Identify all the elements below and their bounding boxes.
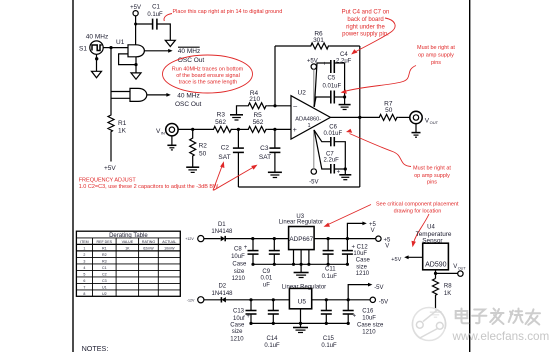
wire -12V to D2 [204, 299, 221, 301]
svg-text:R3: R3 [217, 112, 226, 119]
svg-text:OSC Out: OSC Out [175, 101, 202, 108]
+12V input terminal [185, 236, 204, 242]
node junction U4/R8 [434, 272, 437, 275]
resistor R7 50 [378, 100, 398, 120]
svg-text:210: 210 [249, 96, 260, 103]
svg-text:R1: R1 [118, 120, 127, 127]
svg-text:size: size [232, 329, 243, 335]
wire gate 2 output with arrow [147, 93, 171, 97]
watermark chinese glyphs (vector) [456, 309, 540, 325]
svg-text:size: size [356, 264, 367, 270]
svg-text:Linear Regulator: Linear Regulator [282, 284, 326, 290]
svg-text:R3: R3 [102, 259, 107, 263]
ground below C3 [268, 172, 282, 177]
svg-text:ADA4860-: ADA4860- [295, 117, 321, 123]
wire U4 bottom to node [435, 270, 437, 279]
svg-text:5: 5 [83, 272, 85, 276]
svg-text:1N4148: 1N4148 [211, 229, 233, 235]
ground below U3 [294, 264, 309, 277]
svg-text:OUT: OUT [430, 120, 439, 125]
svg-text:V: V [371, 228, 375, 234]
wire junction to C1 left plate [136, 23, 152, 25]
wire R4 left to ground [237, 106, 248, 115]
svg-text:U2: U2 [102, 292, 107, 296]
svg-text:R2: R2 [199, 143, 208, 150]
svg-text:AD590: AD590 [425, 261, 447, 268]
wire C3 bottom to ground [274, 152, 276, 172]
svg-text:Place this cap right at pin 14: Place this cap right at pin 14 to digita… [173, 9, 283, 15]
wire +12V to D1 [204, 238, 221, 240]
linear regulator U5 [282, 284, 326, 309]
svg-text:Run 40MHz traces on bottom: Run 40MHz traces on bottom [172, 66, 244, 72]
svg-text:+: + [244, 245, 248, 251]
wire positive ground rail [253, 263, 347, 265]
node B junction (R5/C3/+in) [273, 128, 276, 131]
svg-text:10uF: 10uF [362, 315, 376, 321]
wire C1 right plate to ground [157, 24, 170, 40]
svg-text:www.elecfans.com: www.elecfans.com [452, 330, 550, 343]
+5V terminal at op amp [307, 59, 318, 70]
svg-text:Put C4 and C7 on: Put C4 and C7 on [342, 10, 390, 16]
resistor R4 210 [247, 90, 267, 109]
svg-text:+: + [246, 314, 250, 320]
svg-text:0.01uF: 0.01uF [323, 83, 342, 89]
ground below R8 (partly hidden by watermark) [430, 312, 441, 317]
node junction C14 [272, 298, 275, 301]
svg-text:1K: 1K [444, 291, 451, 297]
svg-text:C3: C3 [260, 145, 269, 152]
svg-text:V: V [385, 243, 389, 249]
ground small below VIN [167, 136, 176, 150]
capacitor C15 0.1uF [321, 300, 337, 349]
svg-text:50: 50 [199, 151, 207, 158]
ground small below VOUT [412, 124, 421, 138]
svg-text:U5: U5 [298, 298, 307, 305]
capacitor C5 0.01uF [323, 75, 342, 103]
svg-text:Must be right at: Must be right at [413, 165, 451, 171]
wire C5 right to ground [334, 96, 344, 98]
node junction C13 [249, 298, 252, 301]
svg-text:40 MHz: 40 MHz [86, 33, 108, 40]
wire node down the left column [110, 48, 112, 114]
svg-text:10mW: 10mW [164, 246, 175, 250]
svg-text:U1: U1 [102, 285, 107, 289]
svg-text:0.1uF: 0.1uF [321, 343, 337, 349]
derating table [76, 231, 180, 296]
node junction R2 tap [191, 128, 194, 131]
feedback wire from U1 lower input to ground net [119, 54, 136, 65]
net label 40 MHz OSC Out (inverted) [178, 47, 205, 64]
wire R7 to VOUT connector [398, 116, 409, 118]
svg-text:562: 562 [253, 119, 264, 126]
node C junction (R4/R6/-in) [273, 104, 276, 107]
wire node to gate U1 input [111, 47, 128, 49]
red note: frequency adjust [79, 161, 258, 190]
svg-text:1210: 1210 [362, 329, 376, 335]
ground below R2 [186, 167, 199, 172]
wire down to ground [344, 169, 346, 174]
svg-text:Linear Regulator: Linear Regulator [279, 220, 323, 226]
wire C7 right to ground [334, 168, 345, 170]
wire to gate 2 input b [111, 97, 130, 99]
wire negative ground rail [251, 322, 348, 324]
svg-text:C16: C16 [362, 308, 374, 314]
U3 ground pins [294, 250, 309, 265]
svg-text:1210: 1210 [232, 276, 246, 282]
wire down to ground [344, 97, 346, 104]
capacitor C6 0.01uF [324, 125, 343, 147]
svg-text:size: size [234, 269, 245, 275]
node junction on U1 ground pin [134, 63, 137, 66]
svg-text:1210: 1210 [356, 271, 370, 277]
net arrow +5V [347, 222, 376, 239]
watermark logo circle [412, 308, 445, 341]
svg-text:0.1uF: 0.1uF [322, 274, 338, 280]
svg-text:0.01uF: 0.01uF [324, 131, 343, 137]
wire feedback left vertical [274, 46, 276, 106]
capacitor C9 0.01uF [261, 239, 280, 289]
svg-text:C1: C1 [102, 266, 107, 270]
svg-text:50: 50 [385, 107, 393, 114]
wire output right vertical rail [359, 46, 361, 187]
capacitor C12 10uF [342, 239, 371, 277]
svg-text:3: 3 [83, 259, 85, 263]
node junction C4/C5 ground [343, 95, 346, 98]
svg-text:2: 2 [83, 253, 85, 257]
wire +5V down to gate U1 power pin [135, 16, 137, 45]
svg-text:C6: C6 [329, 125, 337, 131]
svg-text:R2: R2 [102, 253, 107, 257]
wire to gate 2 input a [111, 91, 130, 93]
diode D1 1N4148 [211, 222, 233, 242]
svg-text:562: 562 [215, 119, 226, 126]
svg-text:C5: C5 [328, 75, 336, 81]
capacitor C8 10uF [231, 239, 258, 283]
svg-text:C15: C15 [323, 336, 335, 342]
wire R8 to ground [435, 297, 437, 312]
red note: put C4 and C7 [342, 10, 395, 55]
svg-text:D2: D2 [218, 284, 226, 290]
AND gate U1 [116, 39, 144, 57]
svg-text:1: 1 [308, 123, 311, 129]
svg-text:C3: C3 [102, 279, 107, 283]
capacitor C13 10uf [230, 300, 256, 343]
svg-text:op amp supply: op amp supply [418, 53, 454, 59]
svg-text:+5V: +5V [104, 165, 116, 172]
wire D1 to U3 [225, 238, 288, 240]
red ellipse: run 40MHz traces [163, 55, 253, 93]
wire U1 bottom pin down [135, 57, 137, 73]
node junction C12 [346, 237, 349, 240]
svg-text:1N4148: 1N4148 [211, 291, 233, 297]
red note: must be right at (lower) [346, 129, 451, 186]
svg-text:10uF: 10uF [231, 254, 245, 260]
wire R6 right to output rail [330, 45, 360, 47]
svg-text:ITEM: ITEM [80, 240, 89, 244]
connector VOUT [410, 111, 439, 125]
wire C6 left to supply pin [314, 130, 331, 142]
svg-text:ACTUAL: ACTUAL [162, 240, 176, 244]
border frame left line [72, 0, 74, 352]
svg-text:2.2uF: 2.2uF [324, 158, 340, 164]
svg-text:IN: IN [161, 130, 165, 135]
svg-text:SAT: SAT [218, 154, 230, 161]
svg-text:D1: D1 [218, 222, 226, 228]
wire R5 to op-amp plus input [267, 128, 291, 130]
node junction C8 [251, 237, 254, 240]
border frame right line [469, 0, 471, 352]
node junction C6/C7 ground [344, 167, 347, 170]
svg-text:40 MHz: 40 MHz [178, 48, 200, 55]
net label 40 MHz OSC Out [175, 93, 202, 108]
wire D2 to U5 [226, 299, 290, 301]
node junction C16 [347, 298, 350, 301]
svg-text:–: – [293, 104, 297, 111]
svg-text:-5V: -5V [379, 300, 388, 306]
svg-text:C2: C2 [221, 144, 230, 151]
svg-text:1.0 C2=C3, use these 2 capacit: 1.0 C2=C3, use these 2 capacitors to adj… [79, 184, 219, 190]
wire node to VOUT terminal [436, 272, 458, 274]
svg-text:C8: C8 [234, 246, 242, 252]
svg-text:10uF: 10uF [353, 251, 367, 257]
svg-text:Case: Case [230, 323, 245, 329]
wire S1 output to node [103, 47, 111, 49]
svg-text:pins: pins [431, 60, 441, 66]
node A junction (R3/R5/C2) [237, 128, 240, 131]
capacitor C16 10uF [343, 300, 384, 336]
ground left of R4 [230, 115, 243, 120]
svg-text:10uf: 10uf [233, 316, 245, 322]
pin dot below S1 [95, 57, 98, 60]
svg-text:C11: C11 [325, 267, 336, 273]
svg-text:+5: +5 [369, 222, 377, 228]
svg-text:+5V: +5V [391, 257, 401, 263]
svg-text:+ C12: + C12 [352, 244, 369, 250]
terminal +5V output [376, 236, 391, 249]
junction dots on rail [249, 322, 349, 325]
svg-text:-5V: -5V [374, 285, 383, 291]
svg-text:C2: C2 [102, 272, 107, 276]
wire U5 output rail [312, 299, 370, 301]
node junction at C1 branch [134, 23, 137, 26]
svg-text:Case: Case [232, 262, 247, 268]
wire C5 left to supply pin [314, 97, 331, 107]
red note: must be right at (upper) [341, 45, 456, 94]
svg-text:C14: C14 [266, 336, 278, 342]
svg-text:40 MHz: 40 MHz [177, 93, 199, 100]
svg-text:1210: 1210 [230, 336, 244, 342]
wire R1 to +5V [110, 133, 112, 162]
svg-text:+12V: +12V [185, 237, 194, 241]
node junction C9 [273, 237, 276, 240]
svg-text:U1: U1 [116, 39, 125, 46]
wire C6 right down [334, 142, 345, 169]
svg-text:See critical component placeme: See critical component placement [376, 201, 459, 207]
svg-text:1: 1 [83, 246, 85, 250]
wire S1 bottom to ground [96, 54, 98, 71]
wire C4 right down [334, 63, 344, 97]
svg-text:U2: U2 [298, 90, 307, 97]
svg-text:op amp supply: op amp supply [414, 173, 450, 179]
svg-text:8: 8 [83, 292, 85, 296]
wire feedback top rail [275, 45, 310, 47]
svg-text:C13: C13 [233, 308, 245, 314]
net arrow -5V [348, 283, 383, 300]
ground below U5 [293, 323, 308, 332]
U5 ground pin [300, 309, 302, 324]
svg-text:0.01: 0.01 [261, 276, 273, 282]
capacitor C7 2.2uF [324, 152, 341, 176]
wire (gray) +5V to op amp supply pin [313, 69, 315, 107]
resistor R1 1K [108, 114, 127, 135]
wire op amp output to R7 [330, 116, 378, 118]
op-amp U2 ADA4860-1 [291, 90, 330, 140]
svg-text:U4: U4 [427, 225, 435, 231]
wire bottom feedback rail [238, 186, 359, 188]
linear regulator U3 ADP667 [279, 214, 323, 250]
resistor R3 562 [212, 112, 233, 133]
node junction S1 output [109, 46, 112, 49]
wire R3 to node A [233, 128, 248, 130]
diode D2 1N4148 (reversed) [211, 284, 233, 303]
svg-text:1K: 1K [118, 128, 127, 135]
svg-text:trace is the same length: trace is the same length [179, 79, 237, 85]
svg-text:-5V: -5V [309, 180, 318, 186]
svg-text:pins: pins [427, 179, 437, 185]
svg-text:0.1uF: 0.1uF [147, 12, 163, 18]
svg-text:+: + [293, 127, 297, 134]
wire C7 left to supply pin [314, 130, 331, 169]
wire R2 to ground [192, 158, 194, 167]
svg-text:power supply pin.: power supply pin. [342, 32, 389, 38]
capacitor C4 2.2uF [323, 52, 352, 73]
ground (open triangle) right of C1 [165, 40, 175, 46]
terminal -5V output [370, 297, 388, 306]
svg-text:NOTES:: NOTES: [82, 344, 109, 352]
wire U1 output with arrow [144, 49, 172, 53]
svg-text:VALUE: VALUE [122, 240, 134, 244]
svg-text:Case size: Case size [357, 322, 384, 328]
capacitor C14 0.1uF [264, 300, 280, 349]
node junction C11 [327, 237, 330, 240]
node junction output [358, 116, 361, 119]
svg-text:0.1uF: 0.1uF [264, 343, 280, 349]
red note: see critical component placement [324, 201, 460, 247]
resistor R8 1K [433, 279, 453, 298]
svg-text:Case: Case [356, 258, 371, 264]
svg-text:REF DES: REF DES [97, 240, 113, 244]
svg-text:drawing for location: drawing for location [394, 208, 442, 214]
junction dots on rail [251, 263, 349, 266]
AND gate 2 [130, 88, 147, 101]
temperature sensor U4 AD590 [416, 225, 452, 270]
svg-text:C9: C9 [262, 269, 270, 275]
resistor R5 562 [247, 112, 267, 132]
wire VIN to R3 [178, 128, 212, 130]
svg-text:-12V: -12V [187, 299, 195, 303]
wire C4 left to supply pin [314, 63, 330, 107]
-5V terminal at op amp [309, 169, 318, 186]
wire U4 to +5V with arrow [391, 255, 422, 262]
svg-text:7: 7 [83, 285, 85, 289]
svg-text:right under the: right under the [346, 24, 385, 30]
svg-text:R8: R8 [444, 283, 452, 289]
svg-text:uF: uF [263, 283, 270, 289]
svg-text:1K: 1K [125, 246, 130, 250]
wire (gray) -5V to op amp supply pin [313, 130, 315, 169]
svg-text:RATING: RATING [142, 240, 156, 244]
svg-text:ADP667: ADP667 [289, 236, 313, 243]
resistor R2 50 [190, 129, 208, 157]
+5V supply terminal (top, above C1) [130, 5, 141, 16]
svg-text:62mW: 62mW [143, 246, 154, 250]
oscillator S1 40 MHz [79, 33, 108, 54]
terminal VOUT (sensor) [453, 264, 466, 276]
svg-text:6: 6 [83, 279, 85, 283]
capacitor C3 SAT [259, 129, 280, 160]
svg-text:OUT: OUT [458, 267, 467, 271]
capacitor C1 0.1uF [147, 5, 163, 30]
ground (open triangle) below S1 [92, 71, 102, 78]
svg-text:SAT: SAT [259, 154, 271, 161]
capacitor C11 0.1uF [322, 239, 338, 280]
svg-text:FREQUENCY ADJUST: FREQUENCY ADJUST [79, 177, 137, 183]
svg-text:C1: C1 [152, 5, 160, 11]
capacitor C2 SAT [218, 129, 243, 160]
connector VIN [156, 124, 178, 136]
svg-text:R1: R1 [102, 246, 107, 250]
node junction C15 [325, 298, 328, 301]
red note: place this cap [164, 9, 282, 21]
-12V input terminal [187, 297, 204, 303]
svg-text:4: 4 [83, 266, 85, 270]
wire U3 output rail [314, 238, 376, 240]
svg-text:Must be right at: Must be right at [417, 45, 455, 51]
resistor R6 301 (feedback) [310, 31, 330, 50]
svg-text:of the board ensure signal: of the board ensure signal [176, 73, 240, 79]
ground below C5 [339, 105, 351, 110]
wire R4 right to node C / minus input [267, 105, 291, 107]
svg-text:S1: S1 [79, 46, 87, 53]
svg-text:back of board: back of board [347, 17, 383, 23]
wire C2 bottom to feedback rail [237, 152, 239, 187]
ground below C7 [339, 175, 351, 180]
svg-text:C4: C4 [340, 52, 348, 58]
ground (open triangle) below U1 [131, 73, 141, 79]
